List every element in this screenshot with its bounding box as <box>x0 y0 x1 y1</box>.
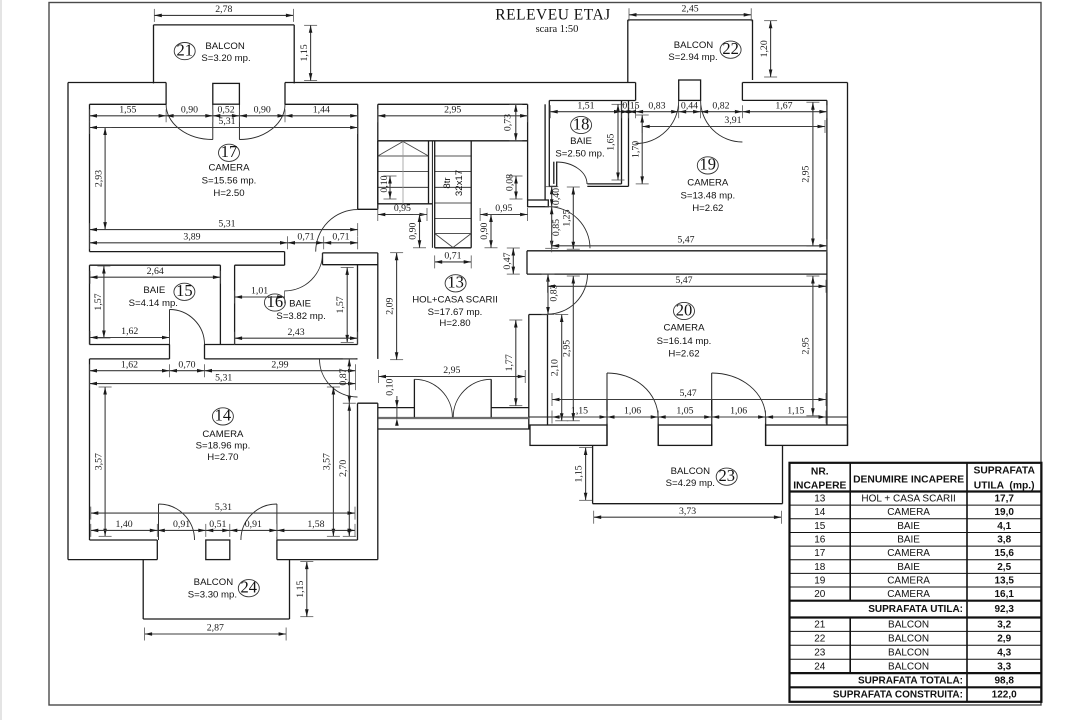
svg-text:23: 23 <box>814 647 826 658</box>
svg-text:BALCON: BALCON <box>194 577 234 588</box>
room15 bottom face <box>90 344 170 346</box>
svg-text:16: 16 <box>814 535 826 546</box>
stairs top edge <box>378 140 528 142</box>
balcony21 door arc left <box>166 105 213 140</box>
room14 bottom inner face <box>90 539 158 541</box>
svg-text:3,2: 3,2 <box>997 620 1011 631</box>
dim 5,31 room17 bottom <box>90 218 358 236</box>
dim 2,10 room20 left <box>550 315 569 421</box>
svg-text:15,6: 15,6 <box>994 548 1014 559</box>
room16 top face <box>235 264 285 266</box>
svg-text:S=13.48 mp.: S=13.48 mp. <box>680 191 735 202</box>
svg-text:17,7: 17,7 <box>994 494 1014 505</box>
svg-text:CAMERA: CAMERA <box>887 589 930 600</box>
svg-text:0,08: 0,08 <box>504 174 515 191</box>
svg-text:0,82: 0,82 <box>712 100 729 111</box>
svg-text:0,71: 0,71 <box>444 251 461 262</box>
entry threshold line <box>379 417 529 419</box>
svg-text:BALCON: BALCON <box>674 40 714 51</box>
wall piece right of room16 door <box>323 252 378 254</box>
dim 1,15 balcony24 <box>295 562 313 617</box>
dim 1,62 room15 <box>90 326 170 344</box>
svg-text:20: 20 <box>676 300 693 319</box>
dim 2,95 hall bottom <box>379 365 526 383</box>
svg-text:2,95: 2,95 <box>562 340 573 357</box>
svg-text:SUPRAFATA UTILA:: SUPRAFATA UTILA: <box>868 604 963 615</box>
room15 door leaf <box>169 310 171 345</box>
stair right flight down-chevron <box>435 234 453 248</box>
svg-text:UTILA (mp.): UTILA (mp.) <box>974 481 1035 492</box>
building top outer wall y=82.5 <box>68 82 166 84</box>
dim 3,57 room14 left <box>94 387 112 536</box>
svg-text:H=2.50: H=2.50 <box>213 188 244 199</box>
table row separators balcony block <box>790 630 1042 632</box>
balcony21 door jamb left <box>165 83 167 105</box>
svg-text:S=16.14 mp.: S=16.14 mp. <box>657 336 712 347</box>
balcony23 door leaf 1 <box>606 373 608 417</box>
wall room19/room20 <box>527 250 827 252</box>
svg-text:4,3: 4,3 <box>997 647 1011 658</box>
svg-text:4,1: 4,1 <box>997 521 1011 532</box>
svg-text:0,71: 0,71 <box>332 231 349 242</box>
room20 door arc <box>548 274 588 314</box>
svg-text:0,90: 0,90 <box>479 222 490 239</box>
dim 1,15 balcony23 <box>574 448 593 501</box>
svg-text:BAIE: BAIE <box>289 299 311 310</box>
svg-text:S=15.56 mp.: S=15.56 mp. <box>202 176 257 187</box>
svg-text:22: 22 <box>722 39 739 58</box>
svg-text:1,77: 1,77 <box>504 354 515 371</box>
stair left flight treads <box>378 155 429 157</box>
svg-text:S=3.82 mp.: S=3.82 mp. <box>276 311 325 322</box>
room20 south wall outer pieces <box>530 425 607 445</box>
room18/19 wall <box>621 101 623 184</box>
svg-text:5,47: 5,47 <box>677 234 694 245</box>
svg-text:2,70: 2,70 <box>338 460 349 477</box>
room19 door arc <box>548 207 590 249</box>
svg-text:20: 20 <box>814 589 826 600</box>
svg-text:S=17.67 mp.: S=17.67 mp. <box>428 307 483 318</box>
balcony 24 outline <box>142 560 144 619</box>
svg-text:HOL + CASA SCARII: HOL + CASA SCARII <box>861 494 955 505</box>
entry door arc left <box>414 379 452 417</box>
balcony 24 door leaf 1 <box>158 504 160 540</box>
svg-text:2,9: 2,9 <box>997 634 1011 645</box>
dim chain room14 bottom <box>91 519 355 537</box>
dim 1,15 balcony21 <box>299 25 317 80</box>
svg-text:3,73: 3,73 <box>679 506 696 517</box>
room20 south wall face with balcony23 door sill line <box>529 416 848 418</box>
svg-text:1,40: 1,40 <box>115 519 132 530</box>
svg-text:0,90: 0,90 <box>181 104 198 115</box>
dim 1,65 room18 <box>606 104 625 180</box>
svg-text:BAIE: BAIE <box>897 562 920 573</box>
svg-text:BAIE: BAIE <box>570 136 592 147</box>
svg-text:S=2.50 mp.: S=2.50 mp. <box>555 148 604 159</box>
room15 door arc <box>170 310 205 345</box>
svg-text:98,8: 98,8 <box>994 675 1014 686</box>
svg-text:1,62: 1,62 <box>121 326 138 337</box>
svg-text:2,95: 2,95 <box>444 104 461 115</box>
balcony21 door jamb right <box>284 83 286 105</box>
svg-text:24: 24 <box>814 661 826 672</box>
svg-text:2,43: 2,43 <box>287 327 304 338</box>
svg-text:2,78: 2,78 <box>215 4 232 15</box>
dim 2,87 balcony24 <box>145 623 287 641</box>
svg-text:13: 13 <box>447 273 464 292</box>
dim 2,95 room19 right <box>800 102 819 246</box>
room14 east wall <box>357 403 359 540</box>
room17 door arc <box>316 210 358 252</box>
svg-text:BAIE: BAIE <box>143 285 165 296</box>
room15 door jambs <box>169 345 171 359</box>
room14 door arc <box>320 359 358 397</box>
dim 2,09 hall <box>385 253 403 360</box>
svg-text:DENUMIRE INCAPERE: DENUMIRE INCAPERE <box>853 474 964 485</box>
dim 1,70 room18-19 <box>631 115 649 184</box>
svg-text:CAMERA: CAMERA <box>663 323 705 334</box>
dim 3,91 room19 top <box>642 115 825 133</box>
node room14 number <box>212 406 233 425</box>
svg-text:RELEVEU ETAJ: RELEVEU ETAJ <box>495 7 610 24</box>
svg-text:2,5: 2,5 <box>997 562 1011 573</box>
dim 5,47 room20 bottom <box>552 388 826 406</box>
dim 2,95 room20 left <box>562 276 580 421</box>
dim line 0,83 room20 door <box>542 274 555 314</box>
left wall inner face <box>89 104 91 251</box>
svg-text:19,0: 19,0 <box>994 507 1014 518</box>
room16 door arc <box>285 253 323 291</box>
svg-text:1,44: 1,44 <box>313 104 330 115</box>
balcony24 door arc 2 <box>241 504 277 540</box>
svg-text:H=2.62: H=2.62 <box>668 348 699 359</box>
hall south wall inner face <box>378 407 415 409</box>
dim 2,78 balcony21 <box>154 4 293 22</box>
svg-text:1,70: 1,70 <box>631 141 642 158</box>
node room19 number <box>697 155 718 174</box>
node room18 number <box>571 114 592 133</box>
room14 east wall upper jamb <box>358 402 378 404</box>
svg-text:19: 19 <box>814 575 826 586</box>
svg-text:HOL+CASA SCARII: HOL+CASA SCARII <box>412 295 498 306</box>
svg-text:1,65: 1,65 <box>606 133 617 150</box>
dim 1,01 room16 <box>235 286 285 304</box>
dim 0,40 0,85 vestibule <box>545 187 562 249</box>
dim 2,64 room15 <box>90 266 220 284</box>
stair flights divider lines <box>431 141 433 248</box>
svg-text:1,15: 1,15 <box>295 580 306 597</box>
svg-text:17: 17 <box>221 142 238 161</box>
room16 door jamb left <box>284 252 286 266</box>
svg-text:2,09: 2,09 <box>385 298 396 315</box>
svg-text:21: 21 <box>176 40 193 59</box>
dim 2,95 room20 right <box>801 276 820 416</box>
svg-text:2,95: 2,95 <box>801 337 812 354</box>
svg-text:1,15: 1,15 <box>299 44 310 61</box>
wall room17/room15-16 : bottom of room 17 <box>90 251 285 253</box>
svg-text:scara 1:50: scara 1:50 <box>536 24 579 35</box>
wall room17/hall upper <box>357 104 359 209</box>
balcony 22 outline <box>628 19 753 21</box>
svg-text:SUPRAFATA TOTALA:: SUPRAFATA TOTALA: <box>858 675 963 686</box>
svg-text:SUPRAFATA CONSTRUITA:: SUPRAFATA CONSTRUITA: <box>833 690 963 701</box>
dim 5,31 room17 top <box>90 116 358 134</box>
balcony 21 door arcs and leaves <box>212 104 214 139</box>
svg-text:H=2.70: H=2.70 <box>207 452 238 463</box>
top wall inner face rooms 18/19 <box>549 100 635 102</box>
svg-text:BAIE: BAIE <box>897 521 920 532</box>
room14/balcony24 door jambs <box>156 540 158 560</box>
node room17 number <box>219 142 240 161</box>
entry door leaves <box>413 379 415 417</box>
node room20 number <box>674 300 695 319</box>
svg-text:0,47: 0,47 <box>502 252 513 269</box>
balcony23 door arc 2 <box>712 373 766 417</box>
svg-text:1,58: 1,58 <box>307 519 324 530</box>
svg-text:0,87: 0,87 <box>338 368 349 385</box>
dim 0,95 stairs left <box>378 203 427 221</box>
svg-text:0,10: 0,10 <box>379 175 390 192</box>
top wall inner face stairwell <box>378 103 528 105</box>
svg-text:NR.: NR. <box>811 467 829 478</box>
svg-text:0,52: 0,52 <box>218 104 235 115</box>
svg-text:5,31: 5,31 <box>218 116 235 127</box>
svg-text:S=18.96 mp.: S=18.96 mp. <box>196 441 251 452</box>
svg-text:CAMERA: CAMERA <box>887 575 930 586</box>
entry door arc right <box>453 379 491 417</box>
svg-text:H=2.62: H=2.62 <box>692 203 723 214</box>
balcony23 door jambs <box>606 400 608 446</box>
svg-text:0,90: 0,90 <box>254 104 271 115</box>
svg-text:CAMERA: CAMERA <box>687 177 729 188</box>
svg-text:15: 15 <box>176 281 193 300</box>
dim 0,73 stairwell <box>503 104 523 141</box>
svg-text:3,89: 3,89 <box>183 231 200 242</box>
dim 0,87 2,70 room14 right <box>338 359 356 536</box>
svg-text:13,5: 13,5 <box>994 575 1014 586</box>
svg-text:SUPRAFATA: SUPRAFATA <box>973 466 1035 477</box>
svg-text:BAIE: BAIE <box>897 535 920 546</box>
balcony 23 outline <box>592 445 594 503</box>
svg-text:1,57: 1,57 <box>93 293 104 310</box>
svg-text:0,95: 0,95 <box>394 203 411 214</box>
stair right flight box <box>434 141 436 248</box>
svg-text:8tr: 8tr <box>442 177 453 189</box>
dim 1,57 room15 <box>93 266 111 338</box>
dim 0,90 stairs left <box>408 215 426 248</box>
dim chain rooms18-19 top <box>550 100 827 118</box>
node room13 number <box>445 273 466 292</box>
svg-text:3,57: 3,57 <box>94 453 105 470</box>
dim chain room17 bottom <box>90 231 358 249</box>
svg-text:3,91: 3,91 <box>724 115 741 126</box>
balcony22 door jamb left <box>635 83 637 101</box>
svg-text:18: 18 <box>573 114 590 133</box>
svg-text:0,91: 0,91 <box>245 519 262 530</box>
svg-text:S=4.14 mp.: S=4.14 mp. <box>129 298 178 309</box>
svg-text:1,20: 1,20 <box>759 40 770 57</box>
stair left flight box <box>377 141 379 204</box>
dim chain balcony23 doors <box>552 406 826 424</box>
svg-text:1,15: 1,15 <box>574 465 585 482</box>
node balcony21 number <box>174 40 195 59</box>
balcony22 door arc left <box>636 101 679 144</box>
dim 1,25 vestibule <box>562 187 580 249</box>
svg-text:1,05: 1,05 <box>676 406 693 417</box>
dim 5,47 room19 bottom <box>552 234 827 252</box>
node balcony24 number <box>238 577 259 596</box>
right wall inner face <box>826 100 828 425</box>
balcony 21 outline <box>154 24 295 26</box>
svg-text:CAMERA: CAMERA <box>208 163 250 174</box>
dim 2,43 room16 <box>235 327 358 345</box>
svg-text:1,15: 1,15 <box>571 406 588 417</box>
dim 2,95 stairwell <box>378 104 528 122</box>
svg-text:5,31: 5,31 <box>218 218 235 229</box>
dim 3,73 balcony23 <box>594 506 782 524</box>
wall room16/hall <box>357 265 359 345</box>
svg-text:S=4.29 mp.: S=4.29 mp. <box>666 478 715 489</box>
balcony23 door arc 1 <box>607 373 658 417</box>
svg-text:BALCON: BALCON <box>888 620 929 631</box>
svg-text:122,0: 122,0 <box>992 690 1017 701</box>
svg-text:2,64: 2,64 <box>147 266 164 277</box>
svg-text:S=3.20 mp.: S=3.20 mp. <box>201 53 250 64</box>
svg-text:2,87: 2,87 <box>207 623 224 634</box>
svg-text:2,93: 2,93 <box>94 170 105 187</box>
svg-text:5,47: 5,47 <box>680 388 697 399</box>
balcony24 door pillar <box>206 540 230 560</box>
node room15 number <box>174 281 195 300</box>
svg-text:0,51: 0,51 <box>209 519 226 530</box>
table header separator <box>790 490 1042 492</box>
balcony21 door arc right <box>239 105 285 140</box>
room18 west face <box>548 101 550 187</box>
svg-text:32x17: 32x17 <box>454 170 465 196</box>
svg-text:CAMERA: CAMERA <box>202 429 244 440</box>
svg-text:2,10: 2,10 <box>550 359 561 376</box>
dim line 0,10 stairs <box>384 176 397 199</box>
dim chain room17 top <box>90 104 358 122</box>
balcony21 door pillar <box>213 83 240 104</box>
svg-text:24: 24 <box>241 577 258 596</box>
svg-text:0,71: 0,71 <box>297 231 314 242</box>
svg-text:S=2.94 mp.: S=2.94 mp. <box>668 52 717 63</box>
svg-text:1,01: 1,01 <box>251 286 268 297</box>
balcony 24 door leaf 2 <box>276 504 278 540</box>
room18 south wall <box>587 183 621 185</box>
hall south wall outer face <box>378 428 530 430</box>
svg-text:1,25: 1,25 <box>562 209 573 226</box>
dim 0,90 stairs right <box>479 215 497 248</box>
dim 5,47 room20 top <box>548 275 827 293</box>
dim chain room14 top <box>90 359 356 377</box>
svg-text:14: 14 <box>215 406 232 425</box>
dim 2,93 room17 left <box>94 128 112 230</box>
svg-text:15: 15 <box>814 521 826 532</box>
svg-text:0,10: 0,10 <box>385 379 396 396</box>
svg-text:3,8: 3,8 <box>997 535 1011 546</box>
svg-text:0,44: 0,44 <box>681 100 698 111</box>
svg-text:CAMERA: CAMERA <box>887 507 930 518</box>
dim 0,47 wall <box>502 248 520 274</box>
dim 2,45 balcony22 <box>629 3 751 21</box>
svg-text:1,67: 1,67 <box>775 100 792 111</box>
stairwell wall bottom cap <box>528 200 549 207</box>
svg-text:92,3: 92,3 <box>994 604 1014 615</box>
svg-text:1,55: 1,55 <box>119 104 136 115</box>
left outer wall x=68 <box>67 83 69 560</box>
svg-text:0,40: 0,40 <box>551 188 562 205</box>
table column divider 2 <box>966 463 968 702</box>
svg-text:3,57: 3,57 <box>322 453 333 470</box>
svg-text:5,31: 5,31 <box>215 502 232 513</box>
svg-text:1,06: 1,06 <box>624 406 641 417</box>
svg-text:BALCON: BALCON <box>888 647 929 658</box>
svg-text:16: 16 <box>267 292 284 311</box>
svg-text:21: 21 <box>814 620 826 631</box>
svg-text:17: 17 <box>814 548 826 559</box>
svg-text:S=3.30 mp.: S=3.30 mp. <box>188 590 237 601</box>
stair right flight treads <box>435 155 472 157</box>
svg-text:0,85: 0,85 <box>551 219 562 236</box>
dim 0,95 stairs right <box>480 203 527 221</box>
room15 top face <box>90 264 221 266</box>
wall room15/room16 <box>219 265 221 344</box>
svg-text:0,83: 0,83 <box>648 100 665 111</box>
dim 1,77 hall <box>504 320 522 406</box>
svg-text:1,51: 1,51 <box>577 100 594 111</box>
room18 door stub <box>553 162 555 184</box>
svg-text:1,62: 1,62 <box>121 359 138 370</box>
node room16 number <box>264 292 285 311</box>
svg-text:BALCON: BALCON <box>205 41 245 52</box>
svg-text:0,73: 0,73 <box>503 114 514 131</box>
room16 bottom face <box>205 344 358 346</box>
balcony22 door pillar <box>679 80 701 100</box>
building bottom outer wall <box>68 559 157 561</box>
room20 west wall <box>528 315 530 430</box>
svg-text:H=2.80: H=2.80 <box>439 318 470 329</box>
dim line 0,10 entry <box>396 396 398 418</box>
wall rooms15-16/room14 lower face <box>90 358 170 360</box>
node balcony22 number <box>720 39 741 58</box>
stair left flight up-chevron <box>378 142 403 157</box>
balcony24 door arc 1 <box>159 504 195 540</box>
svg-text:14: 14 <box>814 507 826 518</box>
svg-text:19: 19 <box>700 155 717 174</box>
screenshot left edge line <box>0 0 2 720</box>
svg-text:BALCON: BALCON <box>671 466 711 477</box>
balcony23 door leaf 2 <box>711 373 713 417</box>
dim 5,31 room14 bottom <box>91 502 355 520</box>
svg-text:1,57: 1,57 <box>335 296 346 313</box>
svg-text:13: 13 <box>814 494 826 505</box>
svg-text:1,15: 1,15 <box>787 406 804 417</box>
right outer wall x=847.5 <box>847 83 849 446</box>
dim line 0,08 stairs <box>510 176 523 199</box>
dim 1,20 balcony22 <box>759 21 777 77</box>
svg-text:16,1: 16,1 <box>994 589 1014 600</box>
dim 1,57 room16 <box>335 267 353 342</box>
svg-text:0,91: 0,91 <box>173 519 190 530</box>
svg-text:CAMERA: CAMERA <box>887 548 930 559</box>
svg-text:1,06: 1,06 <box>730 406 747 417</box>
svg-text:5,31: 5,31 <box>215 372 232 383</box>
svg-text:2,99: 2,99 <box>271 359 288 370</box>
balcony22 door jamb right <box>741 83 743 101</box>
table outer border <box>790 463 1042 702</box>
